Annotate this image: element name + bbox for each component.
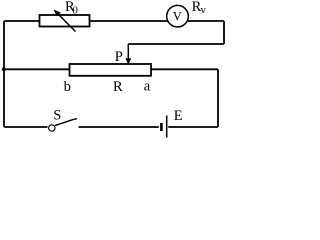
potentiometer R box xyxy=(70,64,152,76)
svg-text:R: R xyxy=(113,79,123,95)
wire: right vertical lower (main loop) xyxy=(217,69,219,127)
svg-text:a: a xyxy=(144,78,151,94)
battery E short thick plate xyxy=(160,123,163,131)
wire: top middle segment (R0 to voltmeter) xyxy=(90,20,168,22)
battery E long thin plate xyxy=(166,116,168,138)
switch S lever xyxy=(55,119,77,126)
wire: bottom right segment (battery to right rail) xyxy=(168,126,218,128)
junction node (left rail / middle wire) xyxy=(2,67,6,71)
switch S circle xyxy=(49,125,55,131)
wire: bottom middle segment (switch to battery) xyxy=(79,126,159,128)
wire: top left segment xyxy=(4,20,40,22)
R0 arrow head xyxy=(54,10,61,17)
wire: bottom left segment xyxy=(4,126,48,128)
svg-text:v: v xyxy=(200,4,206,16)
wire: slider branch horizontal xyxy=(128,43,224,45)
svg-text:0: 0 xyxy=(72,5,78,17)
wire: slider P arrow shaft xyxy=(127,44,129,59)
svg-text:V: V xyxy=(173,10,182,24)
voltmeter U1 circle xyxy=(167,5,189,27)
resistor R0 box xyxy=(40,15,90,27)
svg-text:P: P xyxy=(115,49,123,65)
wire: top right segment (voltmeter to right corner) xyxy=(188,20,224,22)
wire: middle left segment (left rail to b terminal) xyxy=(4,68,70,70)
svg-text:b: b xyxy=(64,79,71,95)
wire: right vertical upper (voltmeter branch) xyxy=(223,21,225,44)
R0 arrow diagonal xyxy=(57,13,76,32)
svg-text:S: S xyxy=(53,108,61,124)
P arrow head xyxy=(125,58,131,64)
svg-text:E: E xyxy=(174,108,183,124)
wire: middle right segment (a terminal to right rail) xyxy=(151,68,218,70)
wire: left vertical xyxy=(3,21,5,127)
